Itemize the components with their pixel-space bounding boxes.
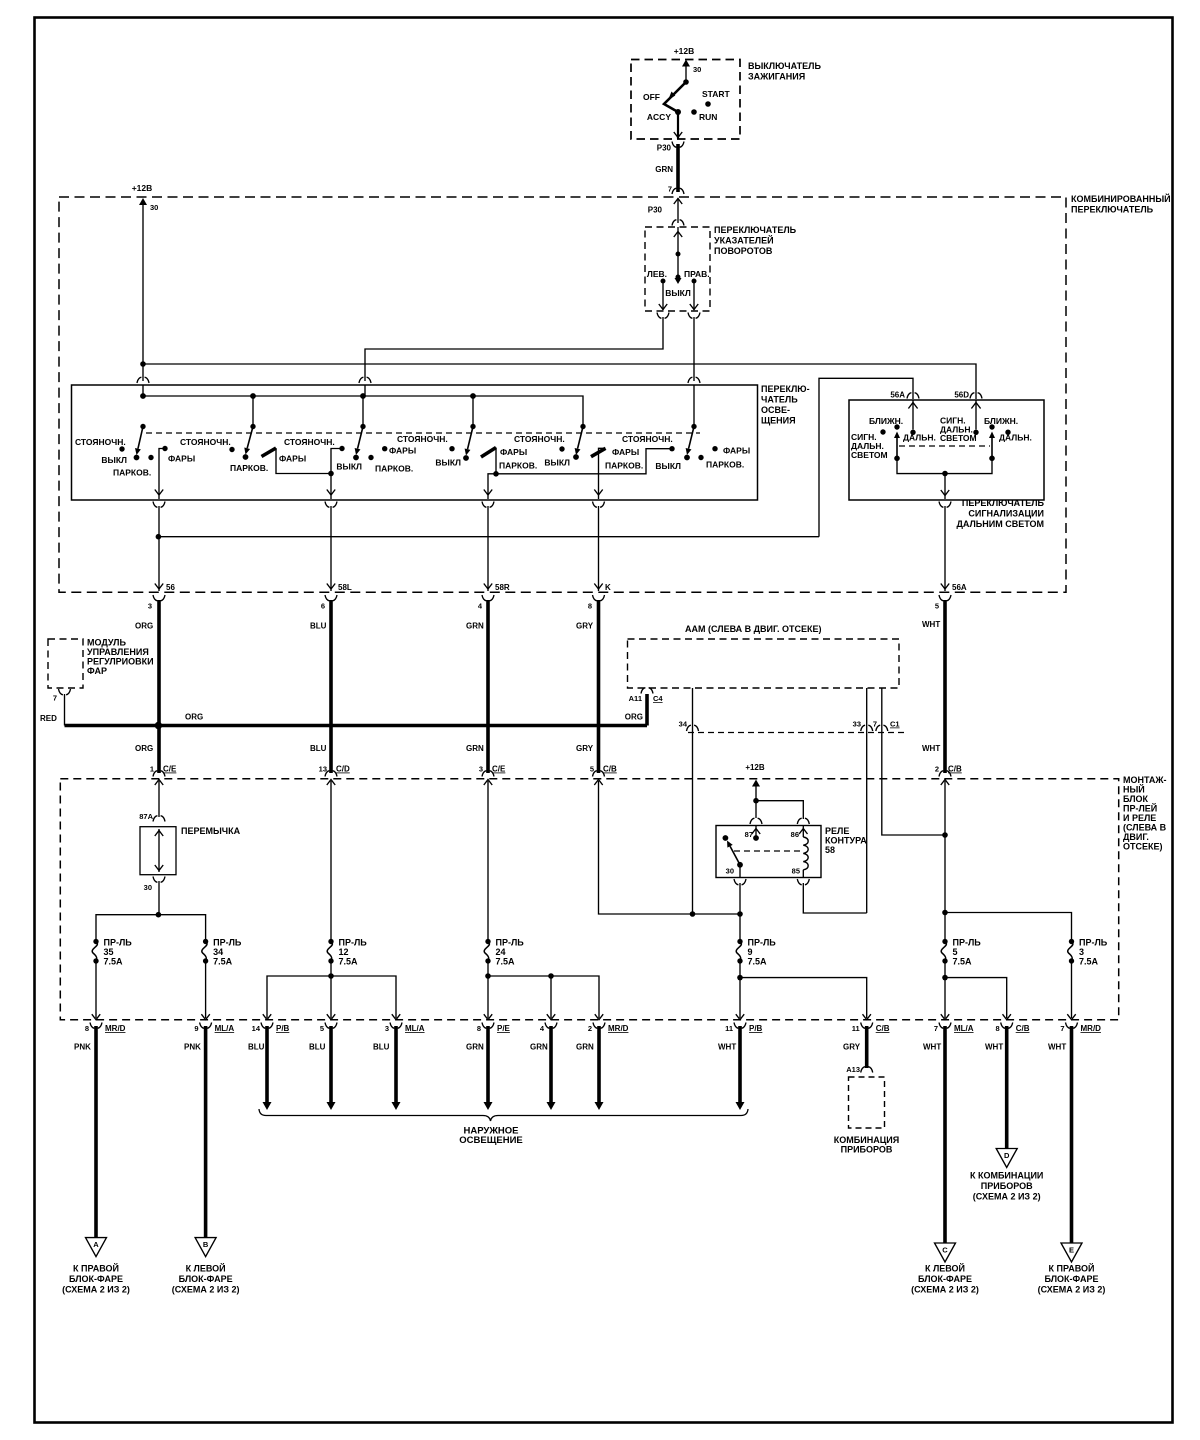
pass-through arc ЛЕВ wire into light switch (359, 377, 371, 383)
ignition contact RUN (691, 109, 697, 115)
svg-text:ЩЕНИЯ: ЩЕНИЯ (761, 416, 796, 426)
wire WHT to left headlamp (943, 1026, 947, 1243)
svg-text:ФАРЫ: ФАРЫ (500, 447, 527, 457)
svg-text:85: 85 (792, 867, 800, 876)
wire 56D from +12V node to dimmer switch (143, 364, 976, 399)
svg-text:ORG: ORG (135, 622, 153, 631)
svg-text:(СХЕМА 2 ИЗ 2): (СХЕМА 2 ИЗ 2) (911, 1285, 979, 1295)
svg-text:30: 30 (144, 883, 152, 892)
svg-text:56: 56 (166, 583, 175, 592)
relay switch arm (730, 846, 740, 865)
AAM pin 7 wire (connector C1) (882, 688, 945, 835)
relay terminal 30 (739, 865, 741, 878)
GRN distribution node (485, 973, 491, 979)
pole 2 output wire to 58L (276, 448, 331, 474)
wire K exits combination switch (598, 506, 600, 591)
junction of C1 link with WHT wire (942, 832, 948, 838)
dimmer output bus (897, 458, 992, 473)
light switch pole 5 arm (578, 427, 583, 449)
dimmer right pole arm (991, 438, 993, 458)
svg-text:ПАРКОВ.: ПАРКОВ. (605, 461, 643, 471)
svg-text:5: 5 (590, 765, 594, 774)
pole 5 output wire K (599, 448, 606, 499)
light switch pole 6 pivot (691, 424, 696, 429)
svg-text:ПАРКОВ.: ПАРКОВ. (375, 464, 413, 474)
svg-text:BLU: BLU (373, 1043, 390, 1052)
svg-text:3: 3 (148, 602, 152, 611)
wire from fuse 34 to pin 9 (205, 962, 207, 1018)
svg-text:8: 8 (85, 1024, 89, 1033)
svg-text:WHT: WHT (922, 744, 940, 753)
svg-text:7.5А: 7.5А (213, 957, 233, 967)
wire WHT to right headlamp (E) (1070, 1026, 1074, 1243)
block pin 4 (GRN) (547, 1014, 555, 1020)
svg-text:ПЕРЕКЛЮ-: ПЕРЕКЛЮ- (761, 384, 810, 394)
fuse ПР-ЛЬ 5 7.5А (942, 939, 947, 944)
block pin 8 / C/B (1003, 1014, 1011, 1020)
connector A (triangle) (86, 1238, 107, 1257)
wire ORG from pin 3 down (157, 600, 161, 773)
svg-text:30: 30 (726, 867, 734, 876)
pole 6 contact СТОЯНОЧН (669, 446, 674, 451)
svg-text:К ЛЕВОЙ: К ЛЕВОЙ (186, 1263, 226, 1274)
pass-through arc ПРАВ wire into light switch (688, 377, 700, 383)
svg-text:ПЕРЕКЛЮЧАТЕЛЬ: ПЕРЕКЛЮЧАТЕЛЬ (1071, 205, 1154, 215)
wire GRN 1 to exterior lighting (486, 1026, 490, 1102)
AAM module box (dashed) (628, 639, 900, 688)
svg-text:GRN: GRN (655, 165, 673, 174)
svg-text:К ПРАВОЙ: К ПРАВОЙ (73, 1263, 119, 1274)
AAM pin A11 / connector C4 (641, 688, 653, 694)
svg-text:WHT: WHT (923, 1043, 941, 1052)
svg-text:+12В: +12В (745, 763, 765, 772)
connector pin 8 (GRY) (593, 595, 605, 601)
svg-text:12: 12 (339, 947, 349, 957)
svg-text:C/D: C/D (336, 765, 350, 774)
svg-text:C/B: C/B (603, 765, 617, 774)
wire GRN 3 to exterior lighting (597, 1026, 601, 1102)
light switch feed bus (143, 385, 583, 427)
svg-text:ОСВЕЩЕНИЕ: ОСВЕЩЕНИЕ (459, 1135, 523, 1146)
junction node 56D feed (140, 361, 146, 367)
svg-text:5: 5 (320, 1024, 324, 1033)
AAM connector dashed line (688, 732, 905, 734)
GRN branch junction to pin 4 (548, 973, 554, 979)
pole 6 contact ФАРЫ (712, 446, 717, 451)
svg-text:7.5А: 7.5А (1079, 957, 1099, 967)
AAM pin 34 wire (692, 688, 694, 914)
exterior lighting brace (259, 1109, 748, 1121)
jumper connector 30 (153, 877, 165, 883)
block pin 8 / MR/D (92, 1014, 100, 1020)
svg-text:7: 7 (1060, 1024, 1064, 1033)
svg-text:C4: C4 (653, 694, 663, 703)
pole 4 contact ВЫКЛ (arm tip) (463, 455, 469, 461)
svg-text:5: 5 (953, 947, 958, 957)
svg-text:8: 8 (996, 1024, 1000, 1033)
dimmer right pole contact СИГН.ДАЛЬН.СВЕТОМ (56D feed) (973, 430, 978, 435)
mechanical link dashed line of light switch poles (146, 432, 700, 434)
svg-text:11: 11 (725, 1024, 733, 1033)
svg-text:ПРИБОРОВ: ПРИБОРОВ (981, 1181, 1033, 1191)
headlamp feed junction on wire 56 (158, 506, 160, 591)
svg-text:8: 8 (477, 1024, 481, 1033)
jumper element (158, 829, 160, 872)
long headlamp feed line from 56 wire to dimmer (56A) (158, 536, 819, 538)
relay coil (803, 837, 808, 870)
AAM pin 7 / connector C1 (876, 725, 888, 731)
svg-text:СИГНАЛИЗАЦИИ: СИГНАЛИЗАЦИИ (968, 509, 1044, 519)
svg-text:СТОЯНОЧН.: СТОЯНОЧН. (284, 437, 335, 447)
pole 1 contact ПАРКОВ (148, 455, 153, 460)
wire ORG up to AAM pin A11 (645, 694, 649, 726)
block pin 9 / ML/A (201, 1014, 209, 1020)
light switch pole 3 arm (358, 427, 363, 449)
svg-text:А: А (93, 1240, 99, 1249)
block pin 2 / MR/D (595, 1014, 603, 1020)
svg-text:А13: А13 (846, 1065, 860, 1074)
wire P30 into turn signal switch (674, 199, 682, 205)
connector pin 3 (ORG) (153, 595, 165, 601)
pole 4 contact ФАРЫ (engaged bar) (481, 448, 496, 458)
svg-text:НЫЙ: НЫЙ (1123, 784, 1145, 795)
wire from relay 85 to AAM pin 33 (803, 883, 866, 913)
svg-text:ДАЛЬН.: ДАЛЬН. (999, 433, 1032, 443)
svg-text:С: С (942, 1246, 948, 1255)
svg-text:ВЫКЛ: ВЫКЛ (655, 461, 681, 471)
svg-text:58L: 58L (338, 583, 352, 592)
wire WHT from pin 5 down (943, 600, 947, 773)
fuse ПР-ЛЬ 9 7.5А (737, 939, 742, 944)
block pin 14 / P/B (263, 1014, 271, 1020)
svg-text:P30: P30 (657, 144, 672, 153)
wire RED from module (64, 694, 66, 726)
light switch pole 1 pivot (140, 424, 145, 429)
svg-text:C/B: C/B (876, 1024, 890, 1033)
pole 4 contact СТОЯНОЧН (449, 446, 454, 451)
light switch pole 4 pivot (470, 424, 475, 429)
svg-text:BLU: BLU (248, 1043, 265, 1052)
svg-text:34: 34 (679, 720, 688, 729)
block pin 3 / ML/A (392, 1014, 400, 1020)
fuse ПР-ЛЬ 3 7.5А (1069, 939, 1074, 944)
svg-text:БЛОК-ФАРЕ: БЛОК-ФАРЕ (918, 1274, 972, 1284)
block pin 11 / C/B (863, 1014, 871, 1020)
svg-text:WHT: WHT (1048, 1043, 1066, 1052)
block pin 2 / connector C/B (939, 771, 951, 777)
svg-text:GRN: GRN (466, 1043, 484, 1052)
svg-text:GRN: GRN (576, 1043, 594, 1052)
svg-text:ПАРКОВ.: ПАРКОВ. (499, 461, 537, 471)
fuse 34 feed branch (158, 915, 205, 939)
svg-text:БЛОК-ФАРЕ: БЛОК-ФАРЕ (69, 1274, 123, 1284)
svg-text:БЛОК-ФАРЕ: БЛОК-ФАРЕ (179, 1274, 233, 1284)
svg-text:+12В: +12В (132, 183, 153, 193)
svg-text:ВЫКЛЮЧАТЕЛЬ: ВЫКЛЮЧАТЕЛЬ (748, 61, 821, 71)
svg-text:К КОМБИНАЦИИ: К КОМБИНАЦИИ (970, 1171, 1043, 1181)
svg-text:A11: A11 (629, 694, 642, 703)
svg-text:ПР-ЛЬ: ПР-ЛЬ (104, 938, 133, 948)
wire from ЛЕВ. contact down out of the box (662, 283, 664, 310)
svg-text:WHT: WHT (718, 1043, 736, 1052)
light switch pole 4 arm (468, 427, 473, 450)
branch from WHT node to fuse 3 (945, 913, 1072, 940)
svg-text:КОМБИНАЦИЯ: КОМБИНАЦИЯ (834, 1135, 899, 1145)
svg-text:ML/A: ML/A (215, 1024, 235, 1033)
svg-text:C/B: C/B (1016, 1024, 1030, 1033)
wire BLU 3 to exterior lighting (394, 1026, 398, 1102)
ignition switch box (dashed) (631, 60, 740, 140)
svg-text:ААМ (СЛЕВА В ДВИГ. ОТСЕКЕ): ААМ (СЛЕВА В ДВИГ. ОТСЕКЕ) (685, 624, 822, 634)
svg-text:24: 24 (496, 947, 506, 957)
turn signal contact ЛЕВ. (661, 279, 666, 284)
svg-text:ПРАВ.: ПРАВ. (684, 269, 710, 279)
svg-text:ПР-ЛЬ: ПР-ЛЬ (496, 938, 525, 948)
pole 2 contact ФАРЫ (engaged bar) (262, 448, 277, 457)
svg-text:GRN: GRN (466, 622, 484, 631)
svg-text:ФАРЫ: ФАРЫ (612, 447, 639, 457)
svg-text:УПРАВЛЕНИЯ: УПРАВЛЕНИЯ (87, 647, 149, 657)
svg-text:7.5А: 7.5А (748, 957, 768, 967)
svg-text:MR/D: MR/D (105, 1024, 126, 1033)
wire 56 exits combination switch (155, 584, 163, 590)
svg-text:ВЫКЛ: ВЫКЛ (665, 288, 691, 298)
relay and fuse block box (dashed) (60, 779, 1118, 1020)
svg-text:ПАРКОВ.: ПАРКОВ. (113, 468, 151, 478)
main ORG distribution line (65, 724, 648, 728)
svg-text:(СХЕМА 2 ИЗ 2): (СХЕМА 2 ИЗ 2) (172, 1285, 240, 1295)
svg-text:C/E: C/E (163, 765, 177, 774)
svg-text:OFF: OFF (643, 92, 660, 102)
block pin 8 / P/E (484, 1014, 492, 1020)
svg-text:87А: 87А (139, 812, 153, 821)
svg-text:3: 3 (1079, 947, 1084, 957)
AAM pin 33 wire (866, 688, 868, 913)
svg-text:5: 5 (935, 602, 939, 611)
svg-text:СВЕТОМ: СВЕТОМ (851, 450, 888, 460)
svg-text:ЗАЖИГАНИЯ: ЗАЖИГАНИЯ (748, 72, 805, 82)
svg-text:ПАРКОВ.: ПАРКОВ. (706, 460, 744, 470)
wire PNK to left headlamp (204, 1026, 208, 1237)
svg-text:ML/A: ML/A (405, 1024, 425, 1033)
dimmer right pole contact БЛИЖН (selected) (989, 424, 994, 429)
light switch pole 5 pivot (580, 424, 585, 429)
svg-text:13: 13 (319, 765, 327, 774)
svg-text:P/B: P/B (749, 1024, 763, 1033)
svg-text:ВЫКЛ: ВЫКЛ (336, 462, 362, 472)
svg-text:ОСВЕ-: ОСВЕ- (761, 405, 790, 415)
connector pin 5 (WHT) (939, 595, 951, 601)
wire BLU 2 to exterior lighting (329, 1026, 333, 1102)
svg-text:ДАЛЬНИМ СВЕТОМ: ДАЛЬНИМ СВЕТОМ (956, 519, 1044, 529)
connector E (triangle) (1061, 1243, 1082, 1262)
wire WHT to instrument cluster (D) (1005, 1026, 1009, 1149)
branch to relay coil terminal 86 (756, 801, 803, 819)
svg-text:GRY: GRY (576, 744, 594, 753)
headlamp leveling module box (dashed) (48, 639, 83, 688)
svg-text:ЛЕВ.: ЛЕВ. (647, 269, 667, 279)
svg-text:RUN: RUN (699, 112, 717, 122)
svg-text:Е: Е (1069, 1246, 1074, 1255)
svg-text:P/E: P/E (497, 1024, 511, 1033)
pole 5 contact ВЫКЛ (arm tip) (573, 454, 579, 460)
link from 58L node to pole 3 СТОЯНОЧН contact (331, 449, 342, 474)
svg-text:ВЫКЛ: ВЫКЛ (435, 458, 461, 468)
light switch pole 6 arm (689, 427, 694, 449)
pole 3 contact ФАРЫ (382, 446, 387, 451)
turn signal feed wire (674, 232, 682, 238)
svg-text:35: 35 (104, 947, 114, 957)
jumper connector 87A (153, 816, 165, 822)
svg-text:ПРИБОРОВ: ПРИБОРОВ (841, 1145, 893, 1155)
pass-through arc +12V into light switch (137, 377, 149, 383)
svg-text:33: 33 (853, 720, 861, 729)
svg-text:СВЕТОМ: СВЕТОМ (940, 433, 977, 443)
light switch pole 2 pivot (250, 424, 255, 429)
svg-text:7: 7 (668, 185, 672, 194)
svg-text:ML/A: ML/A (954, 1024, 974, 1033)
svg-text:ПАРКОВ.: ПАРКОВ. (230, 463, 268, 473)
svg-text:ПР-ЛЬ: ПР-ЛЬ (748, 938, 777, 948)
block pin 5 / connector C/B (593, 771, 605, 777)
wire GRN 2 to exterior lighting (549, 1026, 553, 1102)
pole 3 contact ПАРКОВ (368, 455, 373, 460)
svg-text:ФАРЫ: ФАРЫ (279, 454, 306, 464)
wire from pin 3 to fuse 24 (487, 781, 489, 939)
svg-text:BLU: BLU (310, 622, 327, 631)
svg-text:C/B: C/B (948, 765, 962, 774)
svg-text:C1: C1 (890, 720, 900, 729)
svg-text:РЕГУЛРИОВКИ: РЕГУЛРИОВКИ (87, 657, 154, 667)
ignition contact ACCY (675, 109, 681, 115)
block pin 3 / connector C/E (482, 771, 494, 777)
svg-text:14: 14 (252, 1024, 261, 1033)
instrument cluster pin A13 (861, 1067, 873, 1073)
bus junction dots (140, 393, 146, 399)
svg-text:58R: 58R (495, 583, 510, 592)
svg-text:ПР-ЛЕЙ: ПР-ЛЕЙ (1123, 803, 1157, 814)
circuit relay 58 box (716, 826, 821, 878)
wire from fuse 24 down (487, 962, 489, 1018)
pole 4 output down to 58R (488, 474, 496, 499)
svg-text:БЛОК: БЛОК (1123, 794, 1149, 804)
dimmer mechanical link dashes (899, 445, 990, 447)
svg-text:7: 7 (934, 1024, 938, 1033)
svg-text:MR/D: MR/D (608, 1024, 629, 1033)
svg-text:ПР-ЛЬ: ПР-ЛЬ (339, 938, 368, 948)
svg-text:ПР-ЛЬ: ПР-ЛЬ (1079, 938, 1108, 948)
light switch pole 1 arm (138, 427, 143, 449)
svg-text:2: 2 (588, 1024, 592, 1033)
wire 58R exits combination switch (487, 506, 489, 591)
svg-text:+12В: +12В (674, 46, 695, 56)
svg-text:C/E: C/E (492, 765, 506, 774)
svg-text:ФАР: ФАР (87, 666, 107, 676)
svg-text:ПЕРЕКЛЮЧАТЕЛЬ: ПЕРЕКЛЮЧАТЕЛЬ (962, 498, 1045, 508)
relay terminal 87 (750, 818, 762, 824)
svg-text:2: 2 (935, 765, 939, 774)
pole 2 output down (330, 474, 332, 500)
svg-text:P/B: P/B (276, 1024, 290, 1033)
svg-text:WHT: WHT (985, 1043, 1003, 1052)
svg-text:БЛИЖН.: БЛИЖН. (869, 416, 903, 426)
block pin 7 / ML/A (941, 1014, 949, 1020)
wire from ЛЕВ. to light switch bus (365, 317, 663, 381)
svg-text:ПОВОРОТОВ: ПОВОРОТОВ (714, 246, 773, 256)
feed drops to switch poles (252, 396, 254, 427)
pole 2 contact СТОЯНОЧН (229, 447, 234, 452)
svg-text:СТОЯНОЧН.: СТОЯНОЧН. (75, 437, 126, 447)
relay terminal 30 junction (737, 911, 743, 917)
svg-text:BLU: BLU (309, 1043, 326, 1052)
fuse 35 feed branch (96, 915, 158, 939)
pole 6 contact ВЫКЛ (arm tip) (684, 455, 690, 461)
svg-text:ORG: ORG (625, 713, 643, 722)
svg-text:(СХЕМА 2 ИЗ 2): (СХЕМА 2 ИЗ 2) (62, 1285, 130, 1295)
wire 56A feed from headlamp line to dimmer (819, 378, 913, 536)
svg-text:7: 7 (873, 720, 877, 729)
dimmer output junction (942, 471, 948, 477)
svg-text:ВЫКЛ: ВЫКЛ (101, 455, 127, 465)
svg-text:87: 87 (745, 830, 753, 839)
branch from fuse 5 to pin 8 C/B (945, 978, 1007, 1018)
branch from fuse 9 to pin 11 C/B (740, 978, 867, 1018)
block pin 11 / P/B (736, 1014, 744, 1020)
wire from fuse 12 down (330, 962, 332, 1018)
svg-text:ДВИГ.: ДВИГ. (1123, 832, 1149, 842)
fuse ПР-ЛЬ 12 7.5А (328, 939, 333, 944)
svg-text:9: 9 (748, 947, 753, 957)
connector D (triangle) (996, 1149, 1017, 1168)
BLU branch line (267, 976, 396, 1018)
svg-text:СТОЯНОЧН.: СТОЯНОЧН. (397, 434, 448, 444)
svg-text:ORG: ORG (135, 744, 153, 753)
wire GRY from pin 8 down (597, 600, 601, 773)
svg-text:ОТСЕКЕ): ОТСЕКЕ) (1123, 842, 1163, 852)
svg-text:ПЕРЕКЛЮЧАТЕЛЬ: ПЕРЕКЛЮЧАТЕЛЬ (714, 225, 797, 235)
svg-text:ФАРЫ: ФАРЫ (168, 454, 195, 464)
svg-text:(СЛЕВА В: (СЛЕВА В (1123, 823, 1167, 833)
svg-text:D: D (1004, 1151, 1010, 1160)
dimmer left pole contact БЛИЖН (selected) (894, 424, 899, 429)
svg-text:ПР-ЛЬ: ПР-ЛЬ (953, 938, 982, 948)
svg-text:К ПРАВОЙ: К ПРАВОЙ (1049, 1263, 1095, 1274)
svg-text:GRY: GRY (843, 1043, 861, 1052)
svg-text:СТОЯНОЧН.: СТОЯНОЧН. (622, 434, 673, 444)
dimmer left pole contact ДАЛЬН (56A feed) (910, 430, 915, 435)
svg-text:(СХЕМА 2 ИЗ 2): (СХЕМА 2 ИЗ 2) (1038, 1285, 1106, 1295)
light switch pole 3 pivot (360, 424, 365, 429)
light switch pole 2 arm (247, 427, 253, 449)
junction ORG line with wire 3 (155, 722, 162, 729)
svg-text:СТОЯНОЧН.: СТОЯНОЧН. (180, 437, 231, 447)
svg-text:56D: 56D (954, 391, 969, 400)
block pin 13 / connector C/D (325, 771, 337, 777)
wire WHT from pin 2 down (944, 781, 946, 939)
turn signal movable contact (ВЫКЛ position) (676, 275, 681, 280)
relay terminal 86 (797, 818, 809, 824)
svg-text:1: 1 (150, 765, 154, 774)
wire BLU 1 to exterior lighting (265, 1026, 269, 1102)
svg-text:ДАЛЬН.: ДАЛЬН. (903, 433, 936, 443)
fuse ПР-ЛЬ 24 7.5А (485, 939, 490, 944)
pole 4 output node (495, 448, 497, 474)
svg-text:ORG: ORG (185, 713, 203, 722)
fuse ПР-ЛЬ 34 7.5А (203, 939, 208, 944)
dimmer output wire down (944, 474, 946, 500)
wire to relay terminal 87 (755, 801, 757, 818)
fuse feed junction (156, 912, 162, 918)
